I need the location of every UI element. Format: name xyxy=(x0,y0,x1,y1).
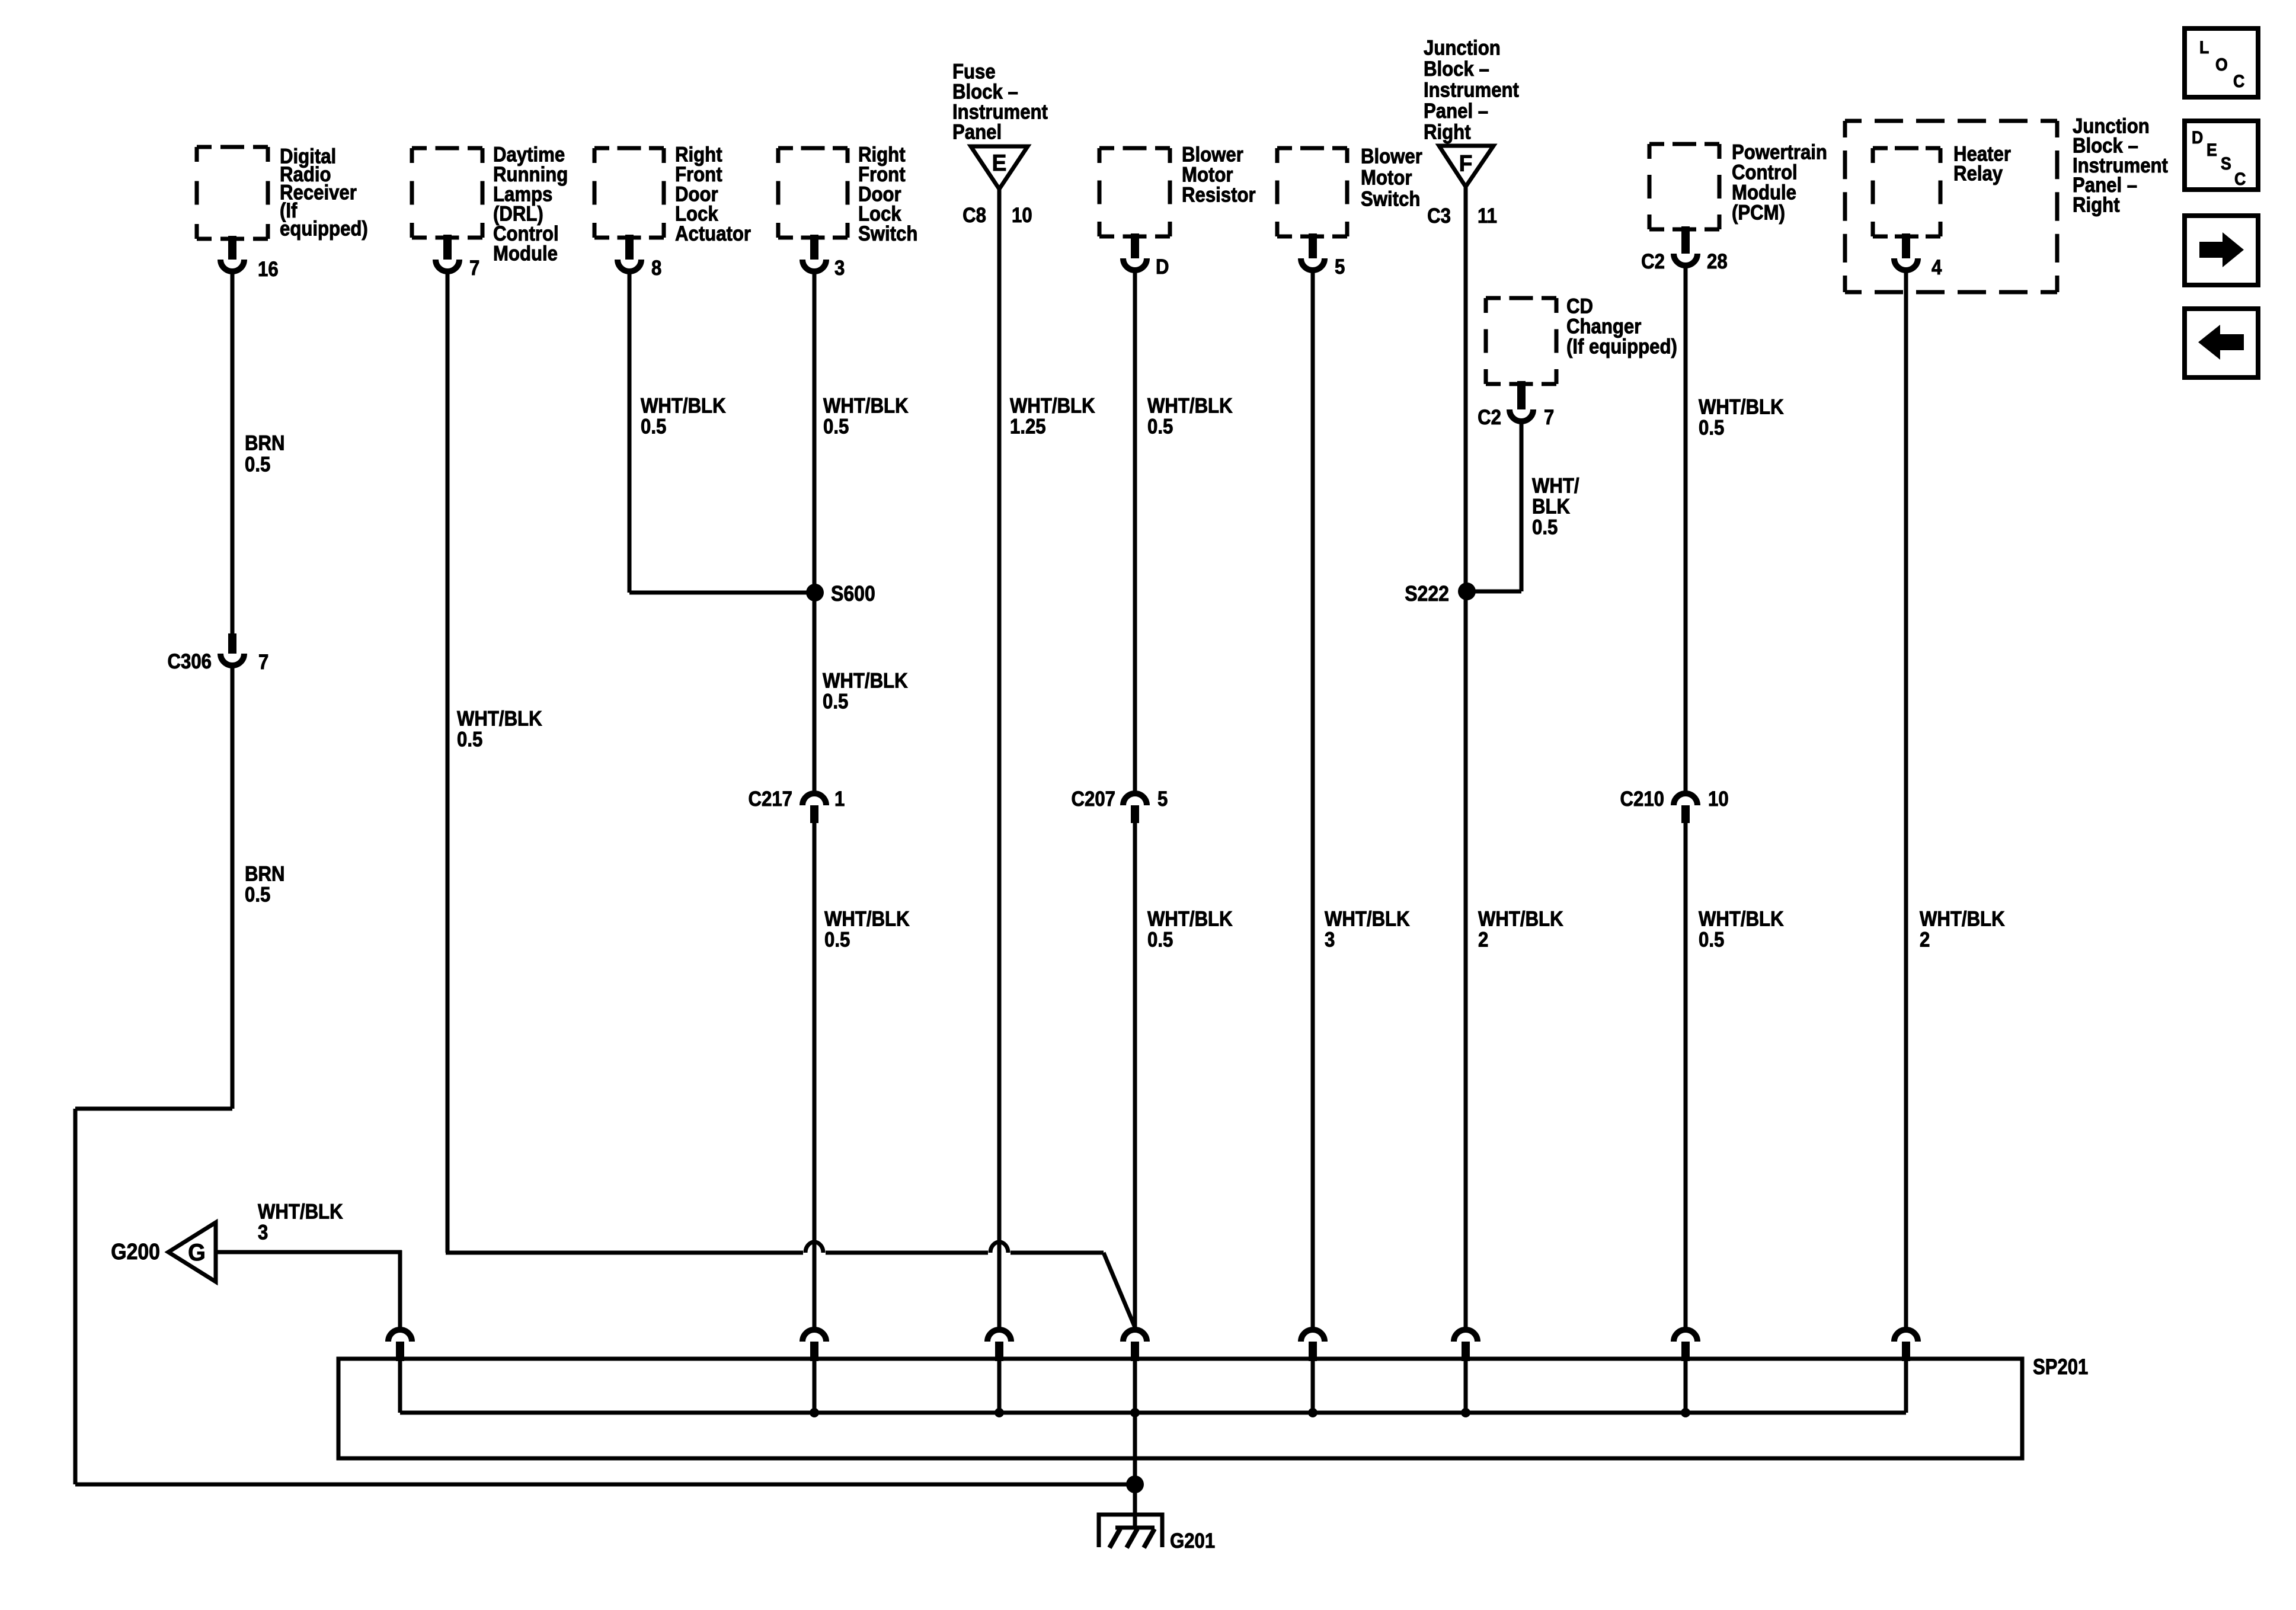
svg-text:Junction: Junction xyxy=(1424,37,1501,60)
svg-text:WHT/BLK: WHT/BLK xyxy=(1478,908,1563,931)
svg-text:C207: C207 xyxy=(1072,788,1115,811)
svg-text:WHT/BLK: WHT/BLK xyxy=(824,908,910,931)
svg-text:7: 7 xyxy=(258,651,268,674)
svg-text:C217: C217 xyxy=(749,788,792,811)
svg-text:WHT/BLK: WHT/BLK xyxy=(1325,908,1410,931)
svg-text:3: 3 xyxy=(1325,929,1335,952)
svg-text:10: 10 xyxy=(1708,788,1729,811)
svg-text:1: 1 xyxy=(834,788,845,811)
svg-text:0.5: 0.5 xyxy=(1699,417,1724,440)
svg-text:8: 8 xyxy=(651,257,661,280)
svg-text:C2: C2 xyxy=(1641,250,1665,273)
svg-text:3: 3 xyxy=(834,257,845,280)
svg-text:D: D xyxy=(1156,255,1169,279)
svg-text:(If equipped): (If equipped) xyxy=(1566,335,1677,359)
svg-text:0.5: 0.5 xyxy=(823,690,848,713)
svg-text:10: 10 xyxy=(1012,204,1032,227)
svg-text:(PCM): (PCM) xyxy=(1732,201,1785,225)
svg-text:WHT/BLK: WHT/BLK xyxy=(1920,908,2005,931)
svg-text:SP201: SP201 xyxy=(2033,1355,2088,1379)
svg-text:Module: Module xyxy=(493,242,558,265)
svg-text:0.5: 0.5 xyxy=(1147,415,1173,438)
svg-text:equipped): equipped) xyxy=(280,217,368,241)
svg-text:G: G xyxy=(188,1240,206,1266)
svg-text:16: 16 xyxy=(258,258,279,281)
svg-text:Block –: Block – xyxy=(1424,57,1489,81)
svg-text:C3: C3 xyxy=(1427,204,1451,228)
svg-text:WHT/BLK: WHT/BLK xyxy=(258,1201,343,1224)
svg-text:WHT/BLK: WHT/BLK xyxy=(641,395,726,418)
svg-text:WHT/BLK: WHT/BLK xyxy=(457,708,542,731)
svg-text:0.5: 0.5 xyxy=(1699,929,1724,952)
svg-text:C8: C8 xyxy=(962,204,986,227)
svg-text:Instrument: Instrument xyxy=(1424,79,1519,102)
svg-text:0.5: 0.5 xyxy=(641,415,666,438)
svg-text:D: D xyxy=(2192,128,2203,148)
svg-text:Actuator: Actuator xyxy=(675,222,751,245)
svg-text:7: 7 xyxy=(1544,406,1554,429)
svg-text:C: C xyxy=(2233,72,2244,92)
svg-text:0.5: 0.5 xyxy=(245,884,270,907)
svg-text:Resistor: Resistor xyxy=(1182,184,1256,207)
svg-text:G200: G200 xyxy=(111,1238,160,1264)
svg-text:Motor: Motor xyxy=(1361,167,1412,190)
svg-text:Switch: Switch xyxy=(858,222,917,245)
svg-text:S: S xyxy=(2221,154,2231,174)
svg-text:7: 7 xyxy=(469,257,479,280)
svg-text:E: E xyxy=(992,151,1007,176)
svg-text:WHT/BLK: WHT/BLK xyxy=(823,670,908,693)
svg-text:BRN: BRN xyxy=(245,863,284,886)
svg-text:4: 4 xyxy=(1932,256,1942,279)
svg-text:Switch: Switch xyxy=(1361,188,1420,211)
svg-text:WHT/BLK: WHT/BLK xyxy=(1010,395,1095,418)
svg-text:Right: Right xyxy=(1424,121,1471,144)
svg-text:0.5: 0.5 xyxy=(245,453,270,476)
svg-text:C306: C306 xyxy=(168,650,212,673)
svg-text:WHT/BLK: WHT/BLK xyxy=(823,395,909,418)
svg-text:28: 28 xyxy=(1707,250,1728,273)
svg-text:11: 11 xyxy=(1478,204,1497,228)
svg-text:F: F xyxy=(1459,151,1473,177)
svg-text:C2: C2 xyxy=(1478,406,1501,429)
svg-text:0.5: 0.5 xyxy=(823,415,849,438)
svg-text:BRN: BRN xyxy=(245,432,284,455)
svg-text:0.5: 0.5 xyxy=(457,728,482,751)
svg-text:WHT/BLK: WHT/BLK xyxy=(1147,908,1233,931)
svg-text:Relay: Relay xyxy=(1953,162,2003,185)
svg-text:S600: S600 xyxy=(831,582,875,606)
svg-text:2: 2 xyxy=(1920,929,1930,952)
svg-text:C210: C210 xyxy=(1620,788,1664,811)
svg-text:E: E xyxy=(2207,140,2217,161)
svg-text:Right: Right xyxy=(2073,194,2120,217)
svg-text:G201: G201 xyxy=(1170,1529,1215,1553)
svg-text:O: O xyxy=(2215,55,2228,75)
svg-text:0.5: 0.5 xyxy=(1147,929,1173,952)
svg-text:WHT/BLK: WHT/BLK xyxy=(1699,908,1784,931)
svg-text:WHT/BLK: WHT/BLK xyxy=(1699,396,1784,419)
svg-text:2: 2 xyxy=(1478,929,1488,952)
svg-text:C: C xyxy=(2234,169,2246,190)
svg-text:3: 3 xyxy=(258,1221,268,1244)
svg-text:Panel –: Panel – xyxy=(1424,100,1488,123)
svg-text:5: 5 xyxy=(1157,788,1168,811)
svg-text:0.5: 0.5 xyxy=(1532,516,1558,539)
svg-text:S222: S222 xyxy=(1405,582,1449,606)
svg-text:1.25: 1.25 xyxy=(1010,415,1046,438)
svg-text:BLK: BLK xyxy=(1532,495,1570,518)
svg-text:L: L xyxy=(2199,38,2209,58)
svg-text:Panel: Panel xyxy=(952,121,1002,144)
svg-text:WHT/: WHT/ xyxy=(1532,475,1579,498)
svg-text:Blower: Blower xyxy=(1361,145,1422,168)
svg-text:0.5: 0.5 xyxy=(824,929,850,952)
svg-text:WHT/BLK: WHT/BLK xyxy=(1147,395,1233,418)
svg-text:5: 5 xyxy=(1335,255,1345,279)
